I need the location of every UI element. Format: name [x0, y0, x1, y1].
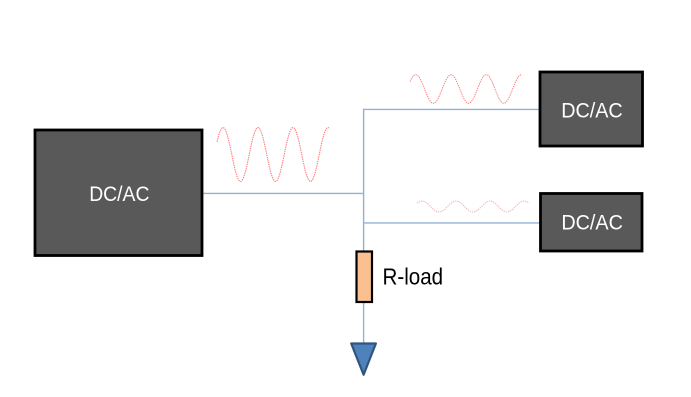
- svg-text:DC/AC: DC/AC: [561, 211, 623, 235]
- svg-text:R-load: R-load: [383, 263, 444, 289]
- svg-text:DC/AC: DC/AC: [561, 98, 623, 122]
- svg-text:DC/AC: DC/AC: [89, 182, 149, 206]
